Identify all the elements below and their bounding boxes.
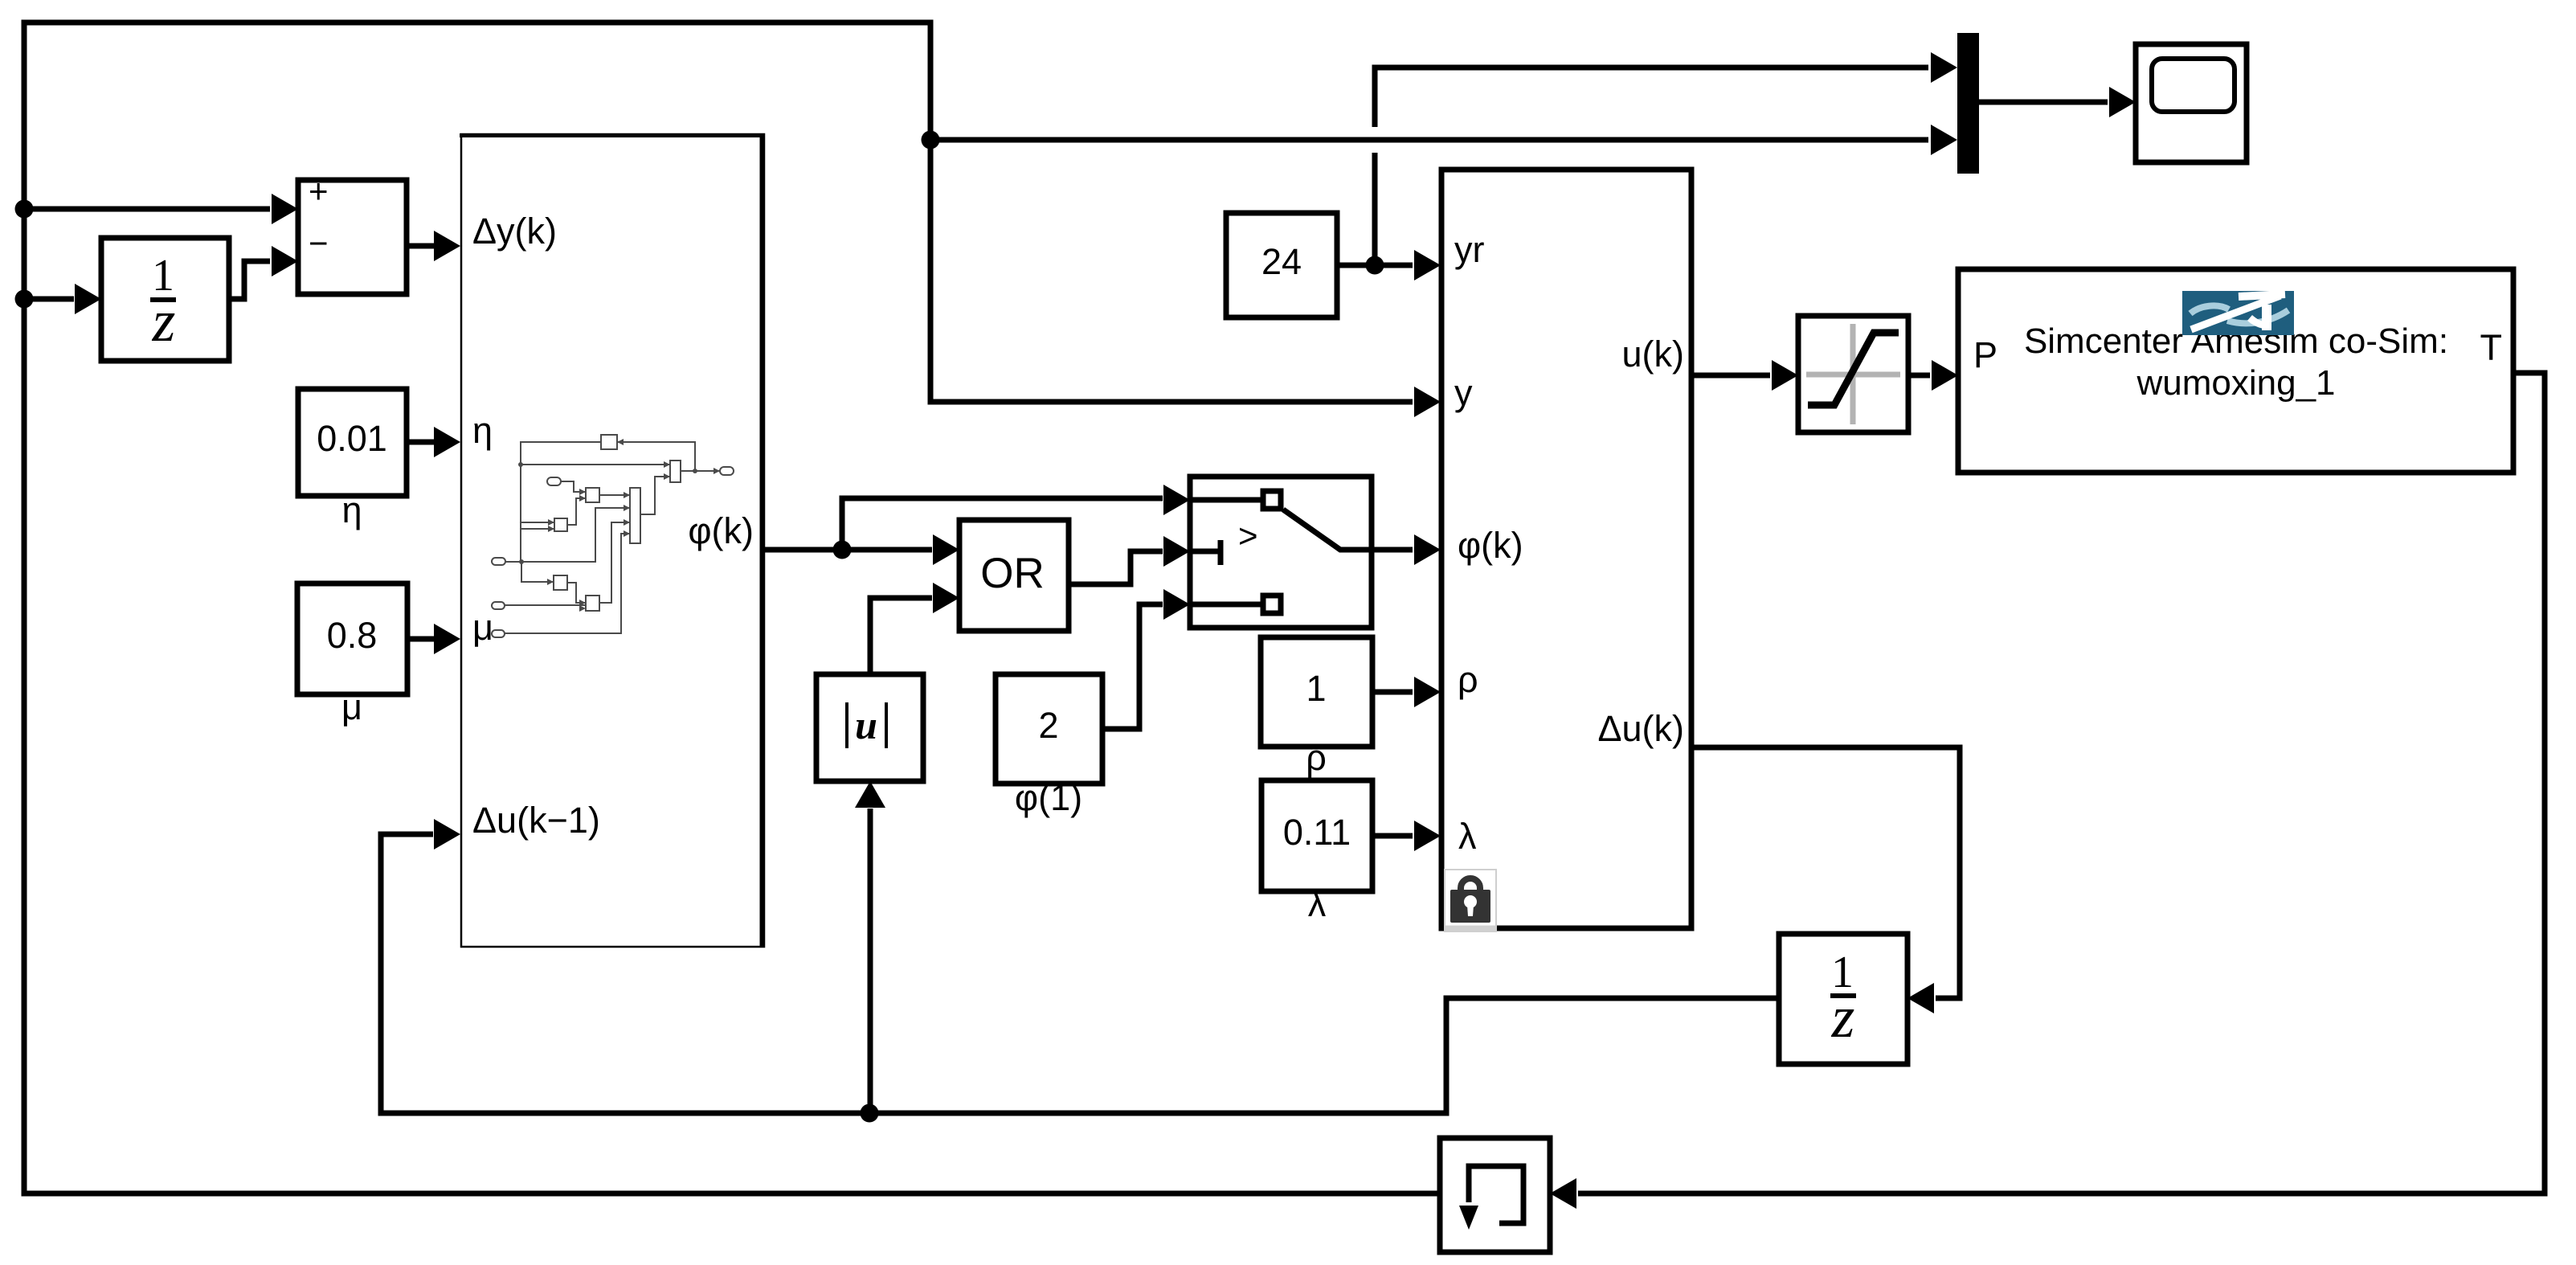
wire unit delay UD2 output to subsystem du(k-1) input with node F (381, 834, 1779, 1113)
svg-text:0.11: 0.11 (1283, 812, 1351, 853)
svg-text:u(k): u(k) (1622, 334, 1685, 375)
svg-text:−: − (309, 224, 329, 262)
arrowhead into controller y (1414, 387, 1441, 417)
node C junction dot (15, 290, 34, 309)
constant 0.8 block (297, 583, 407, 694)
wire mux output to scope input (1979, 100, 2108, 105)
wire constant 24 to controller yr input with node E (1337, 263, 1413, 268)
arrowhead into sum minus (272, 246, 298, 276)
wire constant 1 to controller rho input (1372, 690, 1413, 695)
svg-text:Δy(k): Δy(k) (472, 211, 557, 252)
wire constant 0.8 to subsystem mu input (407, 637, 435, 642)
node B junction dot (15, 200, 34, 219)
mux block (1957, 33, 1979, 174)
svg-text:0.01: 0.01 (317, 418, 387, 459)
saturation block (1798, 316, 1908, 432)
svg-text:Δu(k): Δu(k) (1597, 708, 1684, 749)
node E junction dot (1366, 256, 1384, 275)
svg-text:ρ: ρ (1306, 737, 1327, 778)
wire subsystem phi(k) output to OR input 1 with node D (765, 547, 932, 553)
svg-text:λ: λ (1458, 816, 1477, 857)
svg-text:z: z (1831, 985, 1855, 1050)
node A junction dot (922, 131, 940, 149)
switch block (1190, 477, 1372, 628)
arrowhead into mux input 1 (1931, 52, 1957, 83)
svg-text:1: 1 (1306, 668, 1326, 709)
wire controller u(k) output to saturation input (1691, 373, 1770, 379)
label phi(1) under constant 2 (1015, 777, 1082, 818)
arrowhead into switch input 2 (1163, 536, 1190, 567)
sum block (298, 172, 407, 294)
svg-text:+: + (309, 172, 329, 210)
arrowhead into controller yr (1414, 250, 1441, 280)
arrowhead into subsystem du(k-1) (434, 819, 460, 849)
svg-text:wumoxing_1: wumoxing_1 (2136, 363, 2335, 403)
svg-text:u: u (855, 702, 877, 747)
svg-text:φ(k): φ(k) (1458, 525, 1523, 566)
arrowhead into Amesim P (1932, 360, 1958, 391)
arrowhead into subsystem eta (434, 427, 460, 457)
arrowhead into sum plus (272, 194, 298, 224)
subsystem thumbnail mini-diagram (505, 442, 720, 633)
wire switch output to controller phi(k) input (1372, 547, 1413, 553)
label mu under constant 0.8 (341, 686, 362, 727)
memory feedback block (1440, 1138, 1550, 1252)
svg-text:ρ: ρ (1458, 659, 1478, 700)
OR logical block (959, 520, 1069, 631)
svg-text:μ: μ (472, 607, 493, 648)
arrowhead into controller rho (1414, 677, 1441, 707)
svg-text:OR: OR (980, 550, 1045, 597)
wire OR output to switch input 2 (1069, 551, 1163, 584)
wire node E branch up to mux input 1, gap where it hops over node A wire (1375, 68, 1928, 265)
wire node D branch up to switch input 1 (842, 498, 1163, 550)
label eta under constant 0.01 (341, 489, 362, 530)
svg-text:λ: λ (1308, 883, 1327, 924)
constant 0.01 block (298, 389, 407, 496)
arrowhead into unit delay UD1 (75, 284, 101, 314)
constant 2 block (996, 674, 1102, 784)
svg-text:24: 24 (1261, 241, 1302, 282)
wire abs block output to OR input 2 (870, 598, 932, 674)
arrowhead left into memory block (1550, 1178, 1576, 1209)
arrowhead into saturation (1772, 360, 1798, 391)
label lambda under constant 0.11 (1308, 883, 1327, 924)
wire node A to mux input 2 (930, 137, 1928, 143)
svg-text:η: η (472, 410, 493, 451)
subsystem estimator block (460, 133, 765, 947)
wire node B to sum plus input (24, 207, 270, 212)
arrowhead into subsystem mu (434, 624, 460, 654)
unit delay UD1 block 1/z (101, 238, 229, 361)
wire Amesim T output down and left to memory block input (1578, 373, 2545, 1193)
svg-text:z: z (152, 289, 176, 354)
svg-text:2: 2 (1038, 705, 1058, 746)
arrowhead into controller lambda (1414, 821, 1441, 851)
arrowhead up into abs block (855, 781, 885, 808)
wire constant 0.01 to subsystem eta input (407, 440, 434, 445)
arrowhead into controller phi(k) (1414, 534, 1441, 565)
node F junction dot (861, 1104, 879, 1123)
arrowhead into switch input 3 (1163, 589, 1190, 620)
arrowhead into scope (2109, 87, 2136, 117)
svg-text:Δu(k−1): Δu(k−1) (472, 800, 600, 841)
arrowhead left into unit delay UD2 (1907, 983, 1934, 1013)
svg-text:yr: yr (1454, 229, 1485, 270)
constant 1 block (1261, 637, 1372, 747)
svg-text:P: P (1973, 334, 1997, 375)
svg-text:φ(k): φ(k) (688, 510, 754, 551)
arrowhead into OR input 1 (933, 534, 959, 565)
MFAC controller block (1441, 170, 1691, 928)
lock icon on controller (1445, 870, 1496, 931)
wire node C to unit delay UD1 input (24, 297, 74, 302)
wire sum output to subsystem dy(k) input (407, 244, 434, 249)
unit delay UD2 block 1/z (1779, 934, 1907, 1064)
arrowhead into mux input 2 (1931, 125, 1957, 155)
wire outer feedback loop: memory block output left, up left edge, along top, down to node A (24, 23, 1440, 1193)
svg-text:η: η (341, 489, 362, 530)
svg-text:y: y (1454, 372, 1473, 413)
node D junction dot (833, 541, 852, 559)
wire constant 0.11 to controller lambda input (1372, 833, 1413, 839)
arrowhead into subsystem dy(k) (434, 231, 460, 261)
wire saturation output to Amesim P input (1908, 373, 1930, 379)
svg-text:0.8: 0.8 (327, 615, 378, 656)
wire constant 2 output to switch input 3 (1102, 604, 1163, 729)
scope block (2136, 44, 2247, 162)
Amesim logo (2182, 291, 2294, 335)
arrowhead into OR input 2 (933, 583, 959, 613)
wire unit delay UD1 output to sum minus input (229, 261, 270, 299)
Amesim co-simulation block (1958, 269, 2513, 473)
abs block |u| (816, 674, 923, 781)
wire feedback riser to abs block input (868, 809, 873, 1113)
svg-text:φ(1): φ(1) (1015, 777, 1082, 818)
svg-text:μ: μ (341, 686, 362, 727)
constant 0.11 block (1261, 780, 1372, 891)
label rho under constant 1 (1306, 737, 1327, 778)
wire controller du(k) output down to unit delay UD2 input (1691, 747, 1960, 998)
constant 24 block (1226, 213, 1337, 317)
svg-text:T: T (2480, 327, 2503, 368)
svg-text:>: > (1238, 517, 1258, 555)
arrowhead into switch input 1 (1163, 485, 1190, 515)
